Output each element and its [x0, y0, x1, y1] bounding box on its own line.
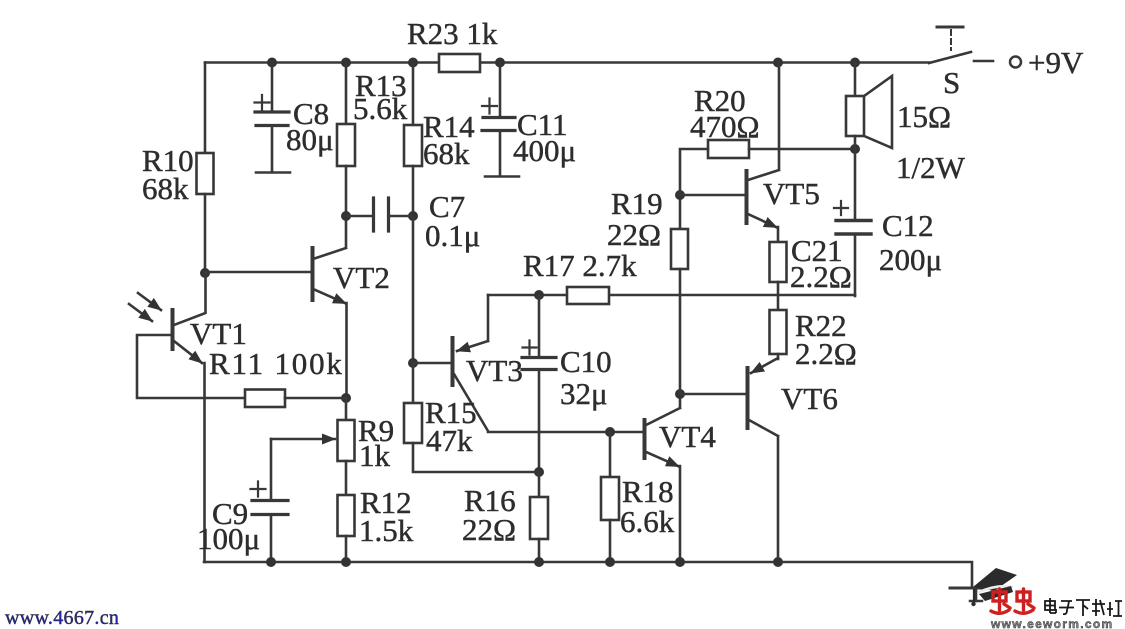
svg-text:C12: C12	[882, 208, 934, 243]
node C10 top	[534, 290, 544, 300]
svg-text:5.6k: 5.6k	[353, 91, 408, 126]
svg-text:32μ: 32μ	[560, 376, 608, 411]
svg-text:68k: 68k	[142, 171, 189, 206]
wire top rail	[205, 61, 929, 64]
transistor VT1	[174, 273, 206, 325]
resistor R9	[345, 398, 348, 420]
resistor R14	[412, 63, 415, 126]
capacitor C10	[538, 295, 541, 357]
wire bottom rail	[204, 562, 972, 588]
transistor VT6	[680, 393, 746, 396]
svg-text:100μ: 100μ	[197, 521, 260, 556]
transistor VT5	[680, 194, 745, 197]
svg-text:R23 1k: R23 1k	[407, 16, 498, 51]
svg-text:C10: C10	[560, 344, 612, 379]
logo graduation cap	[971, 568, 1017, 606]
resistor R22	[770, 310, 787, 354]
svg-text:www.4667.cn: www.4667.cn	[5, 607, 119, 629]
svg-text:22Ω: 22Ω	[462, 512, 516, 547]
capacitor C21	[770, 242, 787, 282]
wire middle column	[412, 216, 415, 363]
resistor R11	[245, 390, 285, 408]
svg-text:R11 100k: R11 100k	[209, 346, 344, 381]
svg-text:2.2Ω: 2.2Ω	[790, 259, 852, 294]
svg-text:68k: 68k	[423, 136, 470, 171]
node VT5 base	[675, 190, 685, 200]
svg-text:VT4: VT4	[659, 419, 716, 454]
svg-text:1k: 1k	[359, 438, 391, 473]
svg-text:www.eeworm.com: www.eeworm.com	[990, 617, 1113, 629]
svg-text:15Ω: 15Ω	[897, 99, 951, 134]
svg-text:22Ω: 22Ω	[607, 217, 661, 252]
svg-text:470Ω: 470Ω	[690, 109, 760, 144]
node bottom rail junctions	[266, 557, 783, 567]
resistor R17	[567, 287, 609, 304]
node R11/R9	[341, 393, 351, 403]
svg-text:47k: 47k	[426, 423, 473, 458]
resistor R18	[609, 432, 612, 477]
resistor R12	[338, 495, 355, 536]
svg-text:R19: R19	[611, 186, 663, 221]
capacitor C9	[270, 439, 273, 500]
wiper arrow into R9	[271, 438, 335, 441]
node R16 top	[534, 467, 544, 477]
light arrows	[138, 293, 161, 310]
node VT3 base	[408, 358, 418, 368]
node A (R10/VT1/VT2 base)	[200, 268, 210, 278]
node top rail junctions	[267, 58, 860, 68]
svg-text:200μ: 200μ	[879, 242, 942, 277]
capacitor C12	[854, 149, 857, 220]
svg-text:1/2W: 1/2W	[896, 150, 966, 185]
capacitor C7	[341, 211, 351, 221]
resistor R23	[439, 54, 480, 72]
resistor R10	[204, 63, 207, 154]
svg-text:VT5: VT5	[763, 176, 820, 211]
svg-text:S: S	[943, 65, 960, 100]
svg-text:80μ: 80μ	[286, 122, 334, 157]
svg-text:VT6: VT6	[781, 381, 838, 416]
svg-text:2.2Ω: 2.2Ω	[795, 336, 857, 371]
svg-text:VT2: VT2	[333, 260, 390, 295]
transistor VT2	[205, 271, 311, 274]
svg-text:1.5k: 1.5k	[359, 513, 414, 548]
capacitor C8	[271, 63, 274, 113]
svg-text:6.6k: 6.6k	[620, 504, 675, 539]
transistor VT3	[413, 362, 451, 365]
logo chongchong red characters	[991, 589, 1034, 613]
resistor R15	[404, 403, 422, 443]
resistor R13	[345, 63, 348, 125]
logo black chinese text	[1045, 598, 1122, 616]
node R18 top	[605, 427, 615, 437]
svg-text:0.1μ: 0.1μ	[425, 218, 480, 253]
svg-text:VT3: VT3	[466, 353, 523, 388]
resistor R19	[679, 195, 682, 229]
speaker BL 15ohm	[854, 63, 857, 97]
wire R17 net	[488, 294, 855, 297]
transistor VT4	[643, 420, 647, 458]
resistor R20	[708, 140, 749, 158]
svg-text:400μ: 400μ	[513, 133, 576, 168]
ground	[950, 587, 992, 590]
svg-text:+9V: +9V	[1028, 45, 1084, 80]
svg-text:R17 2.7k: R17 2.7k	[523, 248, 637, 283]
node speaker bottom	[850, 144, 860, 154]
resistor R16	[538, 472, 541, 497]
capacitor C11	[499, 63, 502, 118]
switch S	[929, 52, 971, 63]
node VT4 collector	[675, 389, 685, 399]
